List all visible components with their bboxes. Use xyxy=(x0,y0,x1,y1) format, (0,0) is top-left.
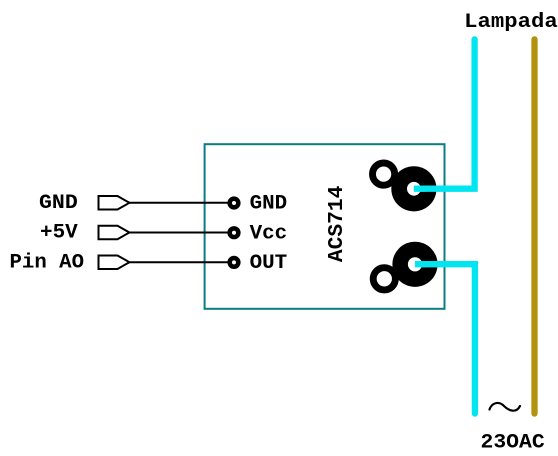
pin Vcc xyxy=(227,226,240,239)
screw terminal T2 bottom xyxy=(373,242,437,290)
connector flag GND xyxy=(99,196,130,210)
svg-text:+5V: +5V xyxy=(40,222,78,245)
connector flag Pin A0 xyxy=(99,256,130,270)
wire stub T2 xyxy=(415,261,426,267)
pin OUT xyxy=(227,256,240,269)
svg-text:Vcc: Vcc xyxy=(250,222,288,245)
svg-text:OUT: OUT xyxy=(250,252,288,275)
wire olive (lamp return, 230AC line) xyxy=(531,39,537,413)
svg-text:GND: GND xyxy=(39,192,78,215)
terminal T1 hole xyxy=(407,182,421,196)
screw terminal T1 top xyxy=(373,163,437,211)
wire stub T1 xyxy=(414,186,425,192)
svg-text:Lampada: Lampada xyxy=(464,11,558,34)
connector flag +5V xyxy=(99,226,130,240)
svg-text:GND: GND xyxy=(250,193,288,216)
wire Pin A0 xyxy=(129,261,234,263)
wire Lampada top (cyan) xyxy=(414,39,475,188)
AC source symbol (~) xyxy=(490,403,521,411)
terminal T2 hole xyxy=(408,257,422,271)
svg-text:ACS714: ACS714 xyxy=(326,186,349,263)
svg-text:23OAC: 23OAC xyxy=(481,432,545,455)
svg-text:Pin AO: Pin AO xyxy=(10,251,85,274)
wire GND xyxy=(129,202,234,204)
pin GND xyxy=(227,196,240,209)
wire 230AC bottom (cyan) xyxy=(415,264,475,413)
component box U1 (ACS714 module outline) xyxy=(205,144,445,309)
wire +5V xyxy=(129,232,234,234)
